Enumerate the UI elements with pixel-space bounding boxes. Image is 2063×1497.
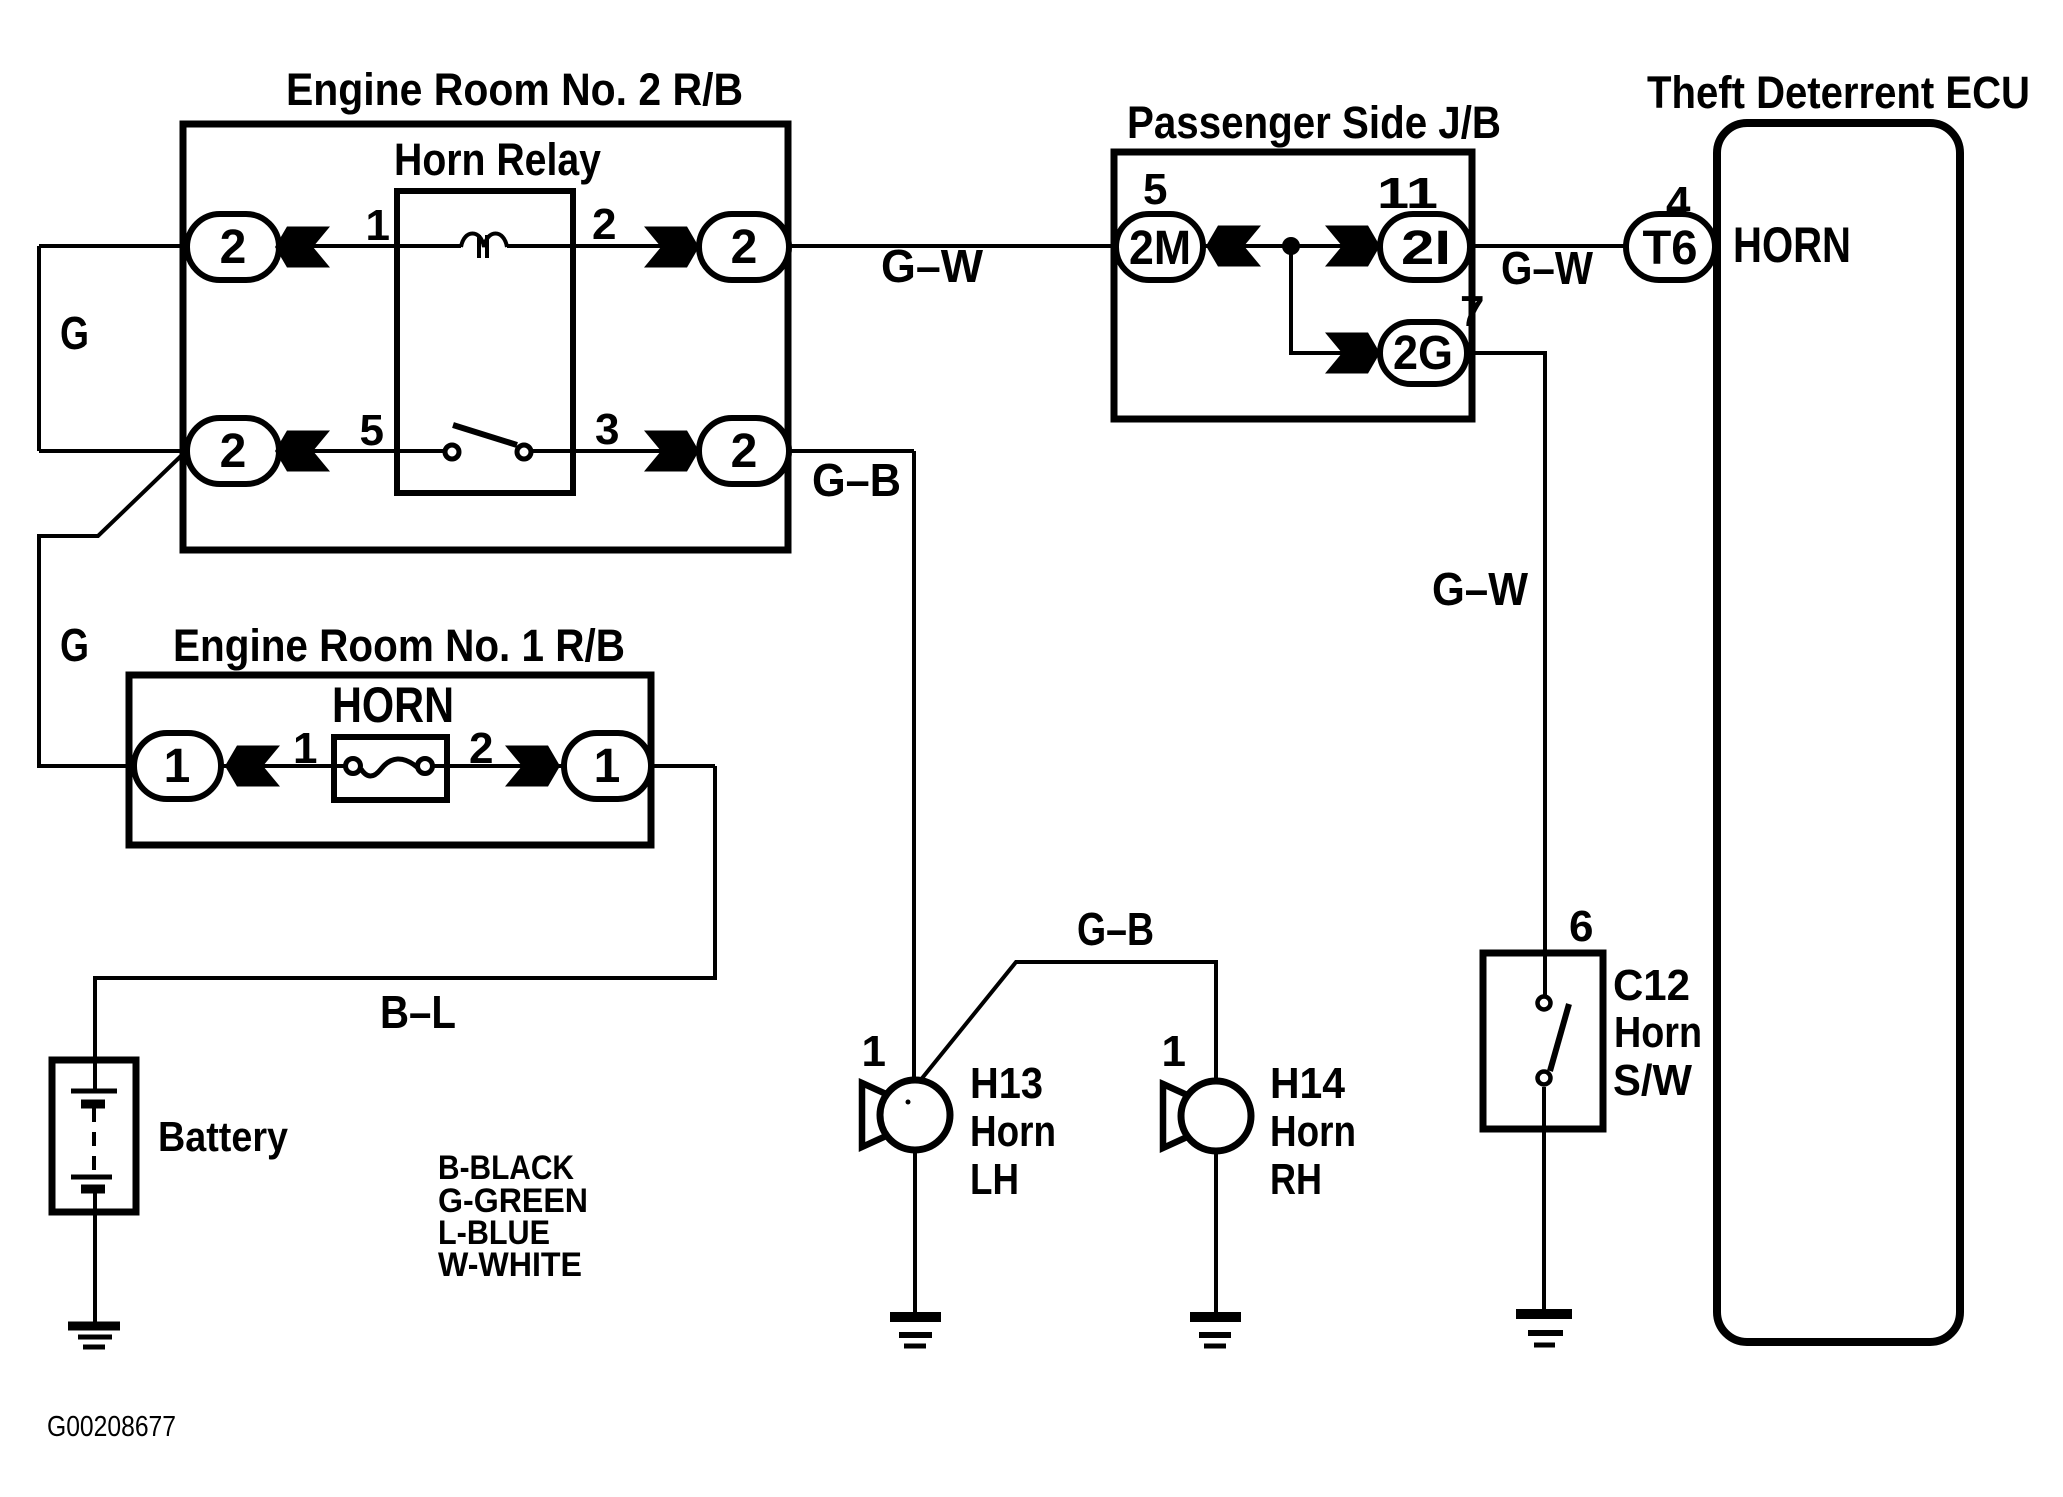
svg-text:G: G	[60, 619, 89, 671]
connector oval 1 right	[564, 733, 651, 799]
svg-text:Horn: Horn	[1270, 1107, 1356, 1156]
svg-text:2: 2	[220, 425, 247, 478]
box Engine Room No. 2 R/B	[183, 124, 788, 550]
svg-text:S/W: S/W	[1613, 1056, 1692, 1105]
svg-text:2: 2	[731, 221, 758, 274]
junction node	[1282, 237, 1300, 255]
relay switch	[453, 425, 517, 445]
wire row E1	[140, 764, 346, 768]
wire row1 main horizontal	[39, 244, 461, 248]
svg-text:G–W: G–W	[881, 240, 984, 292]
svg-text:6: 6	[1569, 902, 1593, 951]
svg-text:2G: 2G	[1393, 327, 1453, 380]
svg-text:Engine Room No. 1 R/B: Engine Room No. 1 R/B	[173, 620, 625, 671]
svg-text:G–W: G–W	[1432, 563, 1529, 615]
horn H14 symbol	[1163, 1084, 1198, 1148]
svg-text:1: 1	[862, 1027, 886, 1076]
svg-text:1: 1	[366, 201, 390, 250]
wire C12 to ground	[1542, 1087, 1546, 1314]
arrow left row1	[275, 227, 330, 268]
svg-text:RH: RH	[1270, 1155, 1322, 1204]
svg-text:Theft Deterrent ECU: Theft Deterrent ECU	[1647, 67, 2030, 118]
fuse element	[361, 759, 417, 776]
svg-text:Passenger Side J/B: Passenger Side J/B	[1127, 97, 1501, 148]
relay Horn Relay box	[397, 191, 573, 493]
svg-text:H13: H13	[970, 1059, 1043, 1108]
wire row2 right of switch	[532, 449, 914, 453]
connector oval 2 row2 left	[187, 418, 279, 484]
svg-text:2: 2	[731, 425, 758, 478]
wire G-B vertical to H13	[912, 451, 916, 1082]
svg-text:H14: H14	[1270, 1059, 1345, 1108]
connector oval 2G	[1380, 322, 1467, 384]
svg-text:Horn: Horn	[1614, 1008, 1702, 1057]
arrow left 2M	[1206, 226, 1261, 267]
arrow right 2I	[1325, 226, 1380, 267]
svg-text:Horn Relay: Horn Relay	[394, 134, 601, 185]
svg-text:7: 7	[1460, 287, 1484, 336]
svg-text:2: 2	[469, 724, 493, 773]
connector oval 2 row1 left	[187, 214, 279, 280]
wire J/B internal row	[1203, 244, 1381, 248]
battery plates	[71, 1089, 117, 1094]
arrow right row2	[644, 431, 699, 472]
arrow right E1	[505, 746, 560, 787]
svg-text:1: 1	[293, 724, 317, 773]
wire G diagonal to lower run	[39, 455, 182, 766]
connector oval 2I	[1380, 214, 1470, 280]
svg-text:HORN: HORN	[1733, 217, 1851, 273]
svg-text:4: 4	[1666, 178, 1691, 227]
box Engine Room No. 1 R/B	[129, 675, 651, 845]
wire H14 to ground	[1214, 1151, 1218, 1317]
svg-text:2M: 2M	[1129, 222, 1191, 275]
svg-text:G–W: G–W	[1501, 242, 1594, 294]
svg-text:LH: LH	[970, 1155, 1019, 1204]
arrow right row1	[644, 227, 699, 268]
wire row2 horizontal	[39, 449, 444, 453]
svg-text:G: G	[60, 307, 89, 359]
svg-text:3: 3	[595, 405, 619, 454]
fuse HORN box	[334, 737, 447, 800]
box Passenger Side J/B	[1114, 152, 1472, 419]
svg-text:Horn: Horn	[970, 1107, 1056, 1156]
svg-text:2I: 2I	[1401, 222, 1451, 275]
wire G vertical left top	[37, 246, 41, 451]
svg-text:1: 1	[594, 740, 621, 793]
horn H13 symbol	[862, 1083, 897, 1147]
svg-text:C12: C12	[1613, 961, 1690, 1010]
wire 2G to C12	[1467, 353, 1545, 995]
battery box	[52, 1060, 136, 1212]
connector oval 2M	[1116, 214, 1203, 280]
arrow right 2G	[1325, 333, 1380, 374]
relay coil	[461, 234, 507, 248]
ground battery	[68, 1322, 120, 1331]
wire junction down and to 2G	[1291, 246, 1381, 353]
svg-text:2: 2	[592, 200, 616, 249]
ground C12	[1516, 1309, 1572, 1319]
svg-text:5: 5	[1143, 165, 1167, 214]
svg-text:W-WHITE: W-WHITE	[438, 1246, 582, 1284]
wire H13 to ground	[913, 1150, 917, 1317]
svg-text:G00208677: G00208677	[47, 1411, 176, 1443]
arrow left E1	[225, 746, 280, 787]
svg-text:T6: T6	[1643, 222, 1698, 275]
svg-text:Engine Room No. 2 R/B: Engine Room No. 2 R/B	[286, 64, 743, 115]
svg-text:HORN: HORN	[332, 677, 454, 733]
svg-text:11: 11	[1377, 169, 1438, 218]
svg-text:5: 5	[360, 406, 384, 455]
connector oval 1 left	[134, 733, 221, 799]
box Theft Deterrent ECU	[1717, 123, 1960, 1342]
svg-text:2: 2	[220, 221, 247, 274]
svg-text:1: 1	[1162, 1027, 1186, 1076]
arrow left row2	[275, 431, 330, 472]
connector oval 2 row2 right	[699, 418, 789, 484]
switch C12 contacts	[1550, 1004, 1569, 1071]
connector oval 2 row1 right	[699, 214, 789, 280]
wire G-B horn branch	[919, 962, 1216, 1082]
wire battery to ground	[93, 1189, 97, 1326]
connector oval T6	[1626, 214, 1715, 280]
switch C12 box	[1483, 953, 1603, 1129]
ground H14	[1190, 1312, 1241, 1322]
svg-text:1: 1	[164, 740, 191, 793]
svg-text:G–B: G–B	[1077, 903, 1154, 955]
wire 2I to T6	[1470, 244, 1630, 248]
wire B-L path	[95, 766, 715, 1091]
svg-text:B–L: B–L	[380, 986, 456, 1038]
svg-text:Battery: Battery	[158, 1113, 289, 1160]
svg-text:G–B: G–B	[812, 454, 901, 506]
ground H13	[890, 1312, 941, 1322]
